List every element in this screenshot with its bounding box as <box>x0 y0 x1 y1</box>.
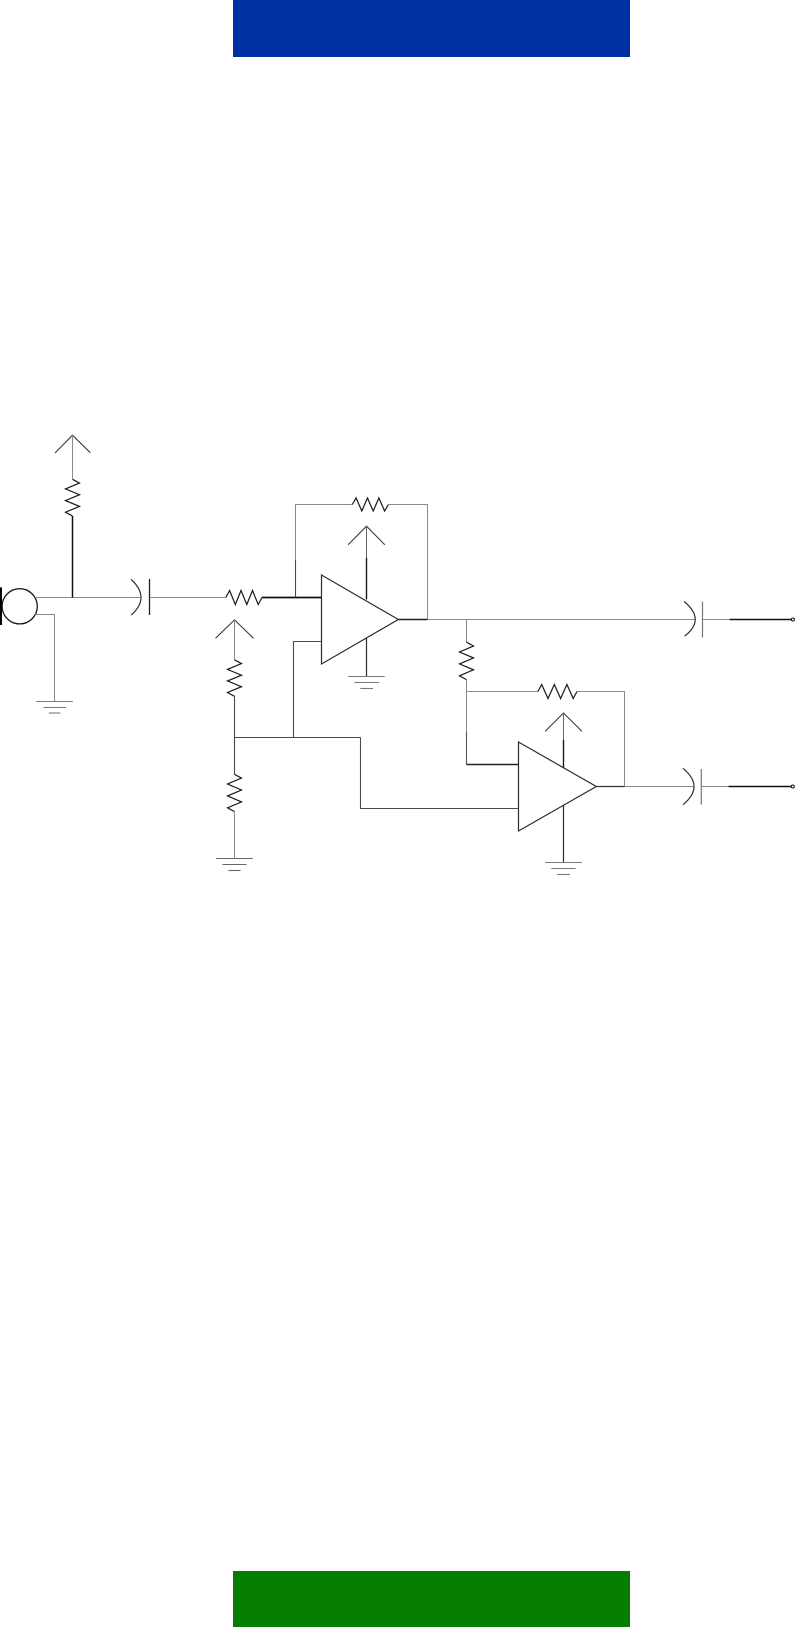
power VCC arrow (U2 supply) <box>545 713 582 731</box>
ground (U2) <box>545 863 582 875</box>
power VCC arrow (U1 supply) <box>348 526 385 545</box>
wire VCC to U2 <box>563 713 565 740</box>
wire VCC to R1 <box>72 435 74 479</box>
wire R2 to op-amp U1 inverting input <box>262 597 322 599</box>
wire node B down lower part <box>466 732 468 765</box>
ground (U1) <box>348 677 385 689</box>
resistor R2 <box>226 591 262 605</box>
wire output node to C2 <box>428 619 695 621</box>
op-amp U2 <box>519 742 597 831</box>
wire C2 to output jack <box>703 619 730 621</box>
wire R1 to mic node <box>72 516 74 598</box>
wire bias to U1 non-inverting input <box>294 642 322 738</box>
wire R7 to ground <box>234 812 236 859</box>
wire mic to ground <box>34 615 55 702</box>
wire VCC pin U2 <box>563 740 565 768</box>
wire R4 to node B <box>466 680 468 692</box>
green footer banner <box>233 1571 630 1627</box>
wire bias node to R7 <box>234 738 236 775</box>
capacitor C2 <box>684 602 702 638</box>
resistor R5 (U2 feedback) <box>538 685 577 699</box>
resistor R7 (bias lower) <box>228 774 242 811</box>
resistor R1 <box>66 479 80 516</box>
power VCC arrow (bias) <box>216 620 254 638</box>
microphone MK1 terminal bar <box>0 587 2 625</box>
wire C3 to output jack <box>702 786 729 788</box>
microphone MK1 body <box>2 589 37 624</box>
ground (bias) <box>216 859 253 871</box>
capacitor C1 <box>131 579 149 615</box>
wire U2 output <box>596 786 624 788</box>
wire output node to R4 <box>466 620 468 643</box>
wire output terminal 2 <box>729 786 792 788</box>
wire U1 ground pin <box>366 638 368 677</box>
wire feedback U1 right leg <box>388 505 427 620</box>
wire VCC to U1 <box>366 526 368 558</box>
ground (mic) <box>36 702 73 714</box>
wire bias node horizontal <box>235 737 361 739</box>
wire VCC to R6 <box>234 620 236 660</box>
capacitor C3 <box>683 768 701 804</box>
terminal pin output 2 <box>791 785 794 788</box>
wire bias to U2 non-inverting input <box>361 738 519 809</box>
wire feedback U1 left leg lower <box>295 560 297 598</box>
wire U1 output <box>398 619 427 621</box>
wire VCC pin U1 <box>366 558 368 600</box>
wire feedback U1 left leg <box>296 505 353 561</box>
wire mic output to C1 <box>35 597 140 599</box>
resistor R6 (bias upper) <box>228 660 242 697</box>
resistor R4 <box>460 642 474 679</box>
blue header banner <box>233 0 630 57</box>
wire R6 to bias node <box>234 696 236 737</box>
resistor R3 (U1 feedback) <box>352 498 388 511</box>
wire U2 output to C3 <box>625 786 694 788</box>
wire U2 inverting input <box>467 764 519 766</box>
wire node B down to U2 inverting input <box>466 692 468 733</box>
wire C1 to R2 <box>150 597 226 599</box>
power VCC arrow (top left) <box>55 435 90 453</box>
wire output terminal 1 <box>730 619 792 621</box>
terminal pin output 1 <box>791 618 794 621</box>
node B wire to R5 <box>467 691 538 693</box>
op-amp U1 <box>322 575 399 664</box>
wire U2 ground pin <box>563 805 565 862</box>
wire R5 to U2 output <box>577 692 625 787</box>
